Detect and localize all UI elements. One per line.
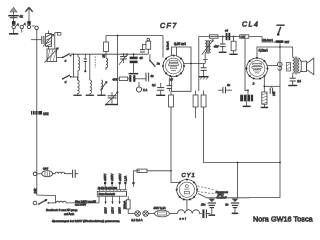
tube CY1 — [176, 178, 199, 200]
svg-text:4/8V 0,1A: 4/8V 0,1A — [153, 206, 165, 210]
wire HT rail right — [199, 36, 240, 38]
svg-text:CL4: CL4 — [242, 22, 259, 29]
ground screen bypass — [199, 76, 209, 79]
svg-text:4F: 4F — [139, 56, 143, 60]
coil band3 — [102, 80, 103, 90]
svg-text:A: A — [16, 22, 19, 26]
svg-text:0,05 mA: 0,05 mA — [174, 42, 186, 46]
terminal A1 — [12, 25, 15, 28]
ground coil band3 — [97, 90, 105, 96]
capacitor electrolytic 16uF — [208, 199, 216, 216]
coil IF secondary — [209, 41, 210, 53]
svg-text:0,1: 0,1 — [152, 83, 156, 87]
switch wafer d contact — [70, 76, 72, 78]
note zusammen — [215, 191, 229, 200]
ground resistor leak — [229, 54, 237, 55]
capacitor grid stopper — [218, 87, 232, 93]
resistor 40k — [209, 35, 218, 38]
node grid return — [247, 89, 249, 91]
svg-text:CY1: CY1 — [182, 173, 196, 179]
coil variable inductor hatched — [45, 48, 59, 63]
coil antenna hatched core — [46, 31, 52, 50]
switch wafer a contact — [70, 55, 72, 57]
wire rail drop to CF7 grid — [162, 36, 164, 58]
svg-text:+125V: +125V — [110, 173, 114, 181]
wire plate res top — [195, 91, 197, 96]
coil mains filter 1 — [53, 172, 72, 174]
transformer output core — [295, 57, 297, 75]
wire 240V tap to resistor — [134, 171, 141, 184]
svg-text:0,04: 0,04 — [43, 167, 49, 171]
tube CF7 — [162, 54, 185, 77]
svg-text:16u: 16u — [201, 202, 206, 206]
wire osc left rail — [89, 54, 91, 80]
wire CL4 screen — [267, 65, 277, 67]
wire antenna to input coil — [31, 39, 41, 41]
switch wafer d pole — [62, 78, 64, 80]
terminal mains 1 — [33, 172, 37, 176]
gang link dashed — [94, 57, 96, 68]
jack phono — [136, 82, 141, 92]
capacitor AVC 2 — [146, 73, 149, 82]
coil choke blob 102 — [31, 111, 42, 115]
svg-text:297: 297 — [285, 40, 290, 44]
note text small — [75, 199, 96, 206]
ground grid return — [156, 95, 165, 96]
capacitor C17 box — [240, 35, 249, 38]
resistor anode feed — [137, 169, 147, 172]
terminal blob A2 — [27, 21, 30, 25]
svg-text:CF7: CF7 — [160, 23, 178, 30]
capacitor grid return — [157, 83, 164, 95]
wire grid return CL4 — [245, 90, 248, 94]
ground tuning osc — [105, 104, 118, 105]
svg-text:47k: 47k — [112, 78, 117, 82]
wire switch d — [71, 76, 78, 78]
coil band1 — [78, 77, 80, 94]
svg-text:700: 700 — [272, 91, 276, 96]
wire grid bus — [71, 53, 149, 55]
ground coil band2 — [86, 94, 94, 96]
wire tone line — [264, 85, 280, 87]
switch wafer g — [149, 54, 155, 67]
svg-text:4x: 4x — [20, 15, 24, 19]
ground grid block — [243, 101, 251, 107]
wire mains to transformer — [98, 196, 100, 203]
svg-text:220V: 220V — [118, 207, 122, 214]
svg-text:+150V: +150V — [118, 173, 122, 181]
fuse 200mA — [126, 191, 130, 213]
wire lamps — [128, 213, 135, 215]
antenna A2 arrow — [25, 7, 32, 21]
resistor cathode CL4 — [262, 92, 267, 104]
capacitor black AVC — [128, 75, 146, 82]
ground coil band1 — [73, 94, 81, 96]
wire filter caps rail — [198, 194, 249, 198]
wire osc right rail — [117, 36, 119, 105]
wire grid CL4 vertical — [244, 38, 246, 91]
resistor 47k — [119, 77, 127, 81]
svg-text:110V: 110V — [104, 207, 108, 213]
wire screen loop — [172, 47, 192, 91]
capacitor screen bypass — [201, 64, 207, 77]
switch wafer a lever — [63, 54, 70, 58]
wire 47k left — [115, 78, 119, 80]
coil output primary — [293, 57, 295, 73]
node resistor leak — [233, 36, 235, 38]
ground padder — [129, 73, 139, 75]
node grid bus — [123, 53, 125, 55]
trimmer box — [58, 33, 61, 36]
capacitor mains 1 — [73, 170, 79, 178]
wire inductor to switch — [57, 56, 63, 58]
stub terminal E — [21, 29, 23, 33]
node tone — [263, 85, 265, 87]
wire resistor top to rail — [105, 36, 107, 43]
svg-text:und 240V: und 240V — [75, 203, 86, 207]
switch wafer a pole — [62, 57, 64, 59]
wire rail drop left — [198, 37, 200, 92]
switch wafer d lever — [63, 75, 70, 79]
arrow variable coupling — [43, 34, 54, 46]
node switch a — [73, 53, 75, 55]
svg-text:auf Anfr.: auf Anfr. — [64, 212, 75, 216]
coil osc primary — [106, 58, 108, 70]
coil IF primary — [205, 41, 207, 53]
ground cap 45V — [219, 52, 227, 53]
capacitor padding — [84, 54, 87, 72]
node B plus — [279, 162, 281, 164]
capacitor output — [288, 73, 297, 86]
svg-text:0,1: 0,1 — [297, 79, 301, 83]
lightning arrester — [8, 15, 19, 18]
fuse mains blob — [276, 40, 284, 43]
capacitor padder black — [130, 54, 138, 73]
svg-text:T.A: T.A — [143, 88, 147, 92]
wire resistor to coil — [105, 52, 107, 58]
capacitor series IF black — [226, 33, 231, 40]
wire switch common — [73, 54, 75, 77]
urdox resistor — [155, 210, 170, 217]
capacitor input — [42, 36, 44, 44]
capacitor 45V — [220, 37, 226, 52]
svg-text:1u: 1u — [227, 83, 231, 87]
svg-text:0,1mA: 0,1mA — [166, 41, 170, 50]
terminal mains 2 — [33, 201, 37, 205]
coil L2 — [78, 54, 80, 79]
tap dots — [104, 182, 135, 184]
capacitor series coupling — [140, 44, 147, 52]
arrow IF tuning — [202, 40, 214, 55]
wire B plus rail — [249, 43, 280, 198]
resistor leak CL4 — [231, 37, 236, 54]
wire main left vertical — [37, 30, 56, 203]
svg-text:Netz=Abschnitt: Netz=Abschnitt — [99, 193, 115, 196]
speaker — [299, 58, 314, 75]
capacitor electrolytic 8uF — [231, 199, 239, 215]
note text bestückt — [46, 208, 78, 216]
svg-text:4u: 4u — [150, 74, 154, 78]
svg-text:a e i: a e i — [179, 216, 186, 220]
svg-text:24k: 24k — [33, 188, 37, 194]
tick row line — [97, 189, 127, 191]
node padder — [133, 53, 135, 55]
wire CL4 plate line — [257, 47, 293, 58]
svg-text:Spannungen bei 220V (Wechselst: Spannungen bei 220V (Wechselstrom) gemes… — [52, 219, 120, 223]
wire B plus drop mid — [237, 163, 239, 198]
capacitor tone 700 — [270, 86, 272, 94]
svg-text:Nora GW16 Tosca: Nora GW16 Tosca — [253, 215, 313, 223]
capacitor grid block black — [240, 95, 253, 102]
wire decoup res top — [203, 91, 205, 96]
capacitor tuning osc — [106, 92, 118, 105]
svg-text:127V: 127V — [110, 207, 114, 214]
switch mains top bar — [276, 25, 284, 26]
leader dashed 2 — [198, 192, 216, 195]
transformer IF core — [207, 40, 209, 54]
coil output secondary — [298, 58, 300, 73]
tap arrows below — [105, 196, 121, 204]
transformer mains box — [97, 191, 126, 196]
capacitor cathode CF7 — [167, 78, 172, 92]
wire coil top — [55, 33, 59, 49]
switch wafer e lever — [100, 81, 107, 90]
svg-text:+8: +8 — [225, 29, 229, 33]
svg-text:200mA: 200mA — [122, 201, 126, 209]
wire A1 to ground — [13, 29, 15, 33]
node IF cap — [222, 36, 224, 38]
dash mark — [32, 25, 35, 27]
wire plate res bottom — [195, 107, 197, 118]
svg-text:0,1 0,2 A: 0,1 0,2 A — [131, 218, 142, 222]
resistor grid leak — [146, 38, 151, 54]
coil mains filter 2 — [56, 201, 99, 203]
wire anode stub CF7 — [176, 47, 178, 56]
svg-text:+105V: +105V — [103, 173, 107, 181]
antenna A1 symbol — [10, 7, 17, 21]
svg-text:Ja: Ja — [157, 62, 161, 66]
terminal E — [20, 25, 23, 28]
ground — [9, 33, 18, 35]
terminal A2 — [27, 25, 30, 28]
filter oval — [37, 171, 53, 177]
resistor plate CF7 — [193, 95, 198, 107]
node drop mid — [237, 162, 239, 164]
svg-text:5,5mA: 5,5mA — [259, 49, 268, 53]
wire screen res top — [170, 91, 172, 95]
wire CY1 cathode heater — [186, 200, 188, 210]
jack field — [278, 62, 291, 71]
wire CF7 plate right — [184, 63, 205, 65]
svg-text:2: 2 — [252, 81, 255, 85]
wire B plus mid — [204, 107, 281, 163]
coil band2 — [90, 80, 92, 94]
tube CL4 — [245, 57, 268, 80]
wire cathode CL4 — [263, 77, 265, 92]
terminal chassis — [35, 26, 38, 29]
wire C17 right — [249, 37, 276, 43]
coil heater — [177, 210, 201, 214]
tap stubs — [105, 184, 133, 189]
node loop crossing — [190, 63, 192, 65]
wire IF primary bottom — [203, 53, 208, 64]
lamp 1 — [135, 211, 140, 216]
capacitor heater black — [202, 209, 210, 218]
wire urdox right — [169, 213, 177, 215]
wire CY1 anode — [171, 107, 180, 183]
svg-text:102: 102 — [43, 112, 49, 116]
resistor osc feed — [104, 42, 109, 52]
lamp 2 — [143, 211, 148, 216]
ground cathode resistor — [261, 104, 268, 108]
switch mains lever — [278, 27, 281, 35]
svg-text:28,3mA: 28,3mA — [262, 38, 273, 42]
terminal blob A1 — [12, 21, 16, 25]
node plate line — [279, 46, 281, 48]
wire resistor to CY1 — [147, 170, 171, 172]
capacitor trimmer RF — [119, 54, 128, 65]
resistor decoupling — [201, 95, 206, 107]
resistor screen CF7 — [169, 95, 174, 107]
switch mains lever 2 — [38, 199, 56, 204]
leader dashed 1 — [198, 186, 216, 190]
wire HT rail left — [106, 35, 163, 37]
svg-text:2,2A: 2,2A — [123, 176, 127, 182]
